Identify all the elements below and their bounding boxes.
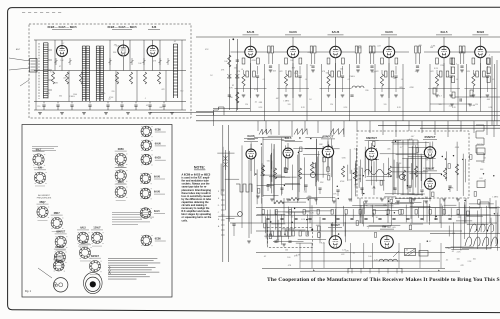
svg-text:.01: .01 bbox=[262, 79, 265, 81]
antenna coil L1 bbox=[43, 43, 48, 99]
tube socket bottom view X7 6AL5 bbox=[77, 227, 90, 247]
sync section resistor R34 bbox=[341, 166, 344, 177]
tuner resistor R6 bbox=[143, 72, 146, 84]
sync section capacitor C37 bbox=[408, 185, 411, 187]
wire tuner bottom bus bbox=[34, 109, 186, 111]
wire V13 plate up bbox=[371, 143, 373, 148]
svg-text:560: 560 bbox=[473, 74, 476, 76]
CRT socket pin dots bbox=[109, 267, 111, 269]
wire V9 stage drop to AGC bus bbox=[465, 64, 467, 112]
wire V8 cathode down bbox=[443, 58, 445, 98]
V6 decoupling resistor boxes bbox=[331, 71, 334, 77]
svg-text:6CB6: 6CB6 bbox=[477, 30, 485, 34]
V8 cathode resistor bbox=[435, 74, 438, 86]
V5 plate load box bbox=[299, 58, 302, 64]
V4 screen bypass capacitor bbox=[256, 75, 259, 77]
wire vertical drop 8 bbox=[439, 198, 441, 223]
video detector load resistors bbox=[452, 58, 455, 65]
mesh micro value labels bbox=[267, 136, 499, 245]
tuner resistor R7 bbox=[157, 72, 160, 84]
svg-text:6AU6: 6AU6 bbox=[247, 134, 255, 138]
yoke winding curls second row bbox=[470, 224, 494, 232]
svg-text:100: 100 bbox=[473, 259, 476, 261]
tube socket bottom view X3 6BQ7 bbox=[37, 202, 50, 221]
tuner trimmer capacitor CT6 bbox=[159, 60, 162, 63]
wire V9 plate tie left bbox=[460, 51, 474, 53]
wire V4 plate tie right bbox=[257, 51, 271, 53]
svg-text:6AU6: 6AU6 bbox=[332, 30, 340, 34]
wire V8 plate to B+ bus bbox=[443, 37, 445, 46]
wire V4 plate tie left bbox=[231, 51, 245, 53]
sync section ground 11 bbox=[364, 200, 368, 202]
wire V7 stage drop to heater bus bbox=[402, 64, 404, 121]
svg-text:.02: .02 bbox=[352, 253, 355, 255]
V7 cathode resistor bbox=[380, 74, 383, 86]
wire vertical riser 12 bbox=[395, 121, 397, 137]
wire vertical drop 10 bbox=[489, 198, 491, 223]
wire V4 cathode down bbox=[250, 58, 252, 98]
wire V15 cathode down bbox=[429, 189, 431, 201]
wire video out right edge bbox=[491, 56, 493, 125]
svg-text:6J6: 6J6 bbox=[152, 25, 157, 29]
antenna coil shield dashed bbox=[38, 43, 40, 99]
converter grid resistor bbox=[228, 55, 231, 67]
svg-text:.1: .1 bbox=[145, 98, 147, 100]
tube socket bottom view X13 6BC5 bbox=[115, 182, 128, 201]
wire vertical riser 15 bbox=[434, 121, 436, 135]
sync section ground 7 bbox=[286, 198, 290, 200]
volume control pot bbox=[238, 212, 243, 217]
bottom row micro labels bbox=[264, 247, 476, 267]
V9 ground symbol bbox=[472, 94, 476, 96]
sound takeoff coil bbox=[352, 86, 364, 88]
wire V6 cathode down bbox=[335, 58, 337, 98]
V7 ground symbol 2 bbox=[394, 94, 398, 96]
wire V6 center drop to bus bbox=[335, 63, 337, 112]
antenna terminal strip bbox=[30, 59, 38, 73]
svg-text:6AL5: 6AL5 bbox=[154, 210, 160, 213]
harness top ties bbox=[393, 139, 418, 141]
svg-text:+: + bbox=[438, 269, 440, 273]
sync section resistor R33 bbox=[310, 162, 313, 173]
tuner trimmer capacitor CT3 bbox=[109, 60, 112, 63]
tuner bypass capacitor C4 bbox=[88, 104, 91, 106]
V8 ground symbol 2 bbox=[449, 94, 453, 96]
svg-text:120: 120 bbox=[439, 104, 442, 106]
wire V5 cathode down bbox=[292, 58, 294, 98]
svg-text:6AL5: 6AL5 bbox=[440, 30, 447, 34]
sawtooth waveform sketch 2 bbox=[294, 129, 307, 135]
mixer grid coil L6 bbox=[100, 46, 103, 101]
svg-text:120: 120 bbox=[288, 104, 291, 106]
svg-text:6AL5: 6AL5 bbox=[285, 136, 292, 140]
svg-text:FREQUENCIES: FREQUENCIES bbox=[37, 198, 52, 200]
wire vertical riser 16 bbox=[447, 121, 449, 137]
V6 grid resistor in box bbox=[327, 58, 330, 64]
V8 screen bypass capacitor bbox=[449, 75, 452, 77]
sync section resistor R32 bbox=[298, 168, 301, 179]
tube socket bottom view XR4 6AU6 bbox=[140, 173, 165, 184]
svg-text:470K: 470K bbox=[252, 60, 257, 62]
svg-text:WIDTH: WIDTH bbox=[477, 144, 484, 146]
V5 ground tie wire bbox=[277, 88, 309, 90]
tuner resistor R5 bbox=[129, 72, 132, 84]
svg-text:12AU7: 12AU7 bbox=[426, 166, 435, 170]
svg-text:.01: .01 bbox=[290, 216, 293, 218]
svg-text:Fig. 1: Fig. 1 bbox=[25, 290, 32, 293]
tuner resistor R1 bbox=[51, 72, 54, 84]
wire V15 plate up bbox=[429, 173, 431, 178]
V9 decoupling resistor boxes bbox=[476, 71, 479, 77]
AGC keyer dashed enclosure bbox=[268, 228, 313, 248]
sync section resistor R36 bbox=[388, 166, 391, 177]
tuner ground 5 bbox=[126, 112, 130, 114]
long wire bus y223 bbox=[230, 222, 497, 224]
cathode resistor stack bbox=[318, 226, 321, 231]
wire vertical riser 9 bbox=[356, 121, 358, 131]
wire V5 plate to B+ bus bbox=[292, 37, 294, 46]
sync section resistor R31 bbox=[273, 168, 276, 179]
svg-text:.01: .01 bbox=[305, 79, 308, 81]
wire V10 plate up bbox=[250, 144, 252, 149]
svg-text:.01: .01 bbox=[174, 41, 177, 43]
svg-text:6SN7GT: 6SN7GT bbox=[56, 232, 66, 234]
wire vertical drop 2 bbox=[283, 198, 285, 223]
V7 grid resistor in box bbox=[381, 58, 384, 64]
svg-text:6AL5: 6AL5 bbox=[80, 227, 86, 230]
wire V5 stage drop to AGC bus bbox=[278, 64, 280, 112]
V4 plate load box bbox=[257, 58, 260, 64]
twisted pair symbol bbox=[225, 150, 227, 170]
wire bottom bus 4 bbox=[300, 270, 460, 272]
right edge meander shield bbox=[476, 125, 484, 161]
detector filter components bbox=[433, 88, 436, 94]
wire tuner mid bus bbox=[34, 70, 186, 72]
sync section ground 17 bbox=[456, 198, 460, 200]
svg-text:220: 220 bbox=[112, 91, 115, 93]
tube location panel box bbox=[22, 125, 172, 298]
V8 ground tie wire bbox=[428, 88, 460, 90]
svg-text:100: 100 bbox=[457, 258, 460, 260]
tuner bypass capacitor C9 bbox=[162, 104, 165, 106]
AGC keyer components inside dashed box bbox=[271, 231, 273, 236]
svg-text:.005: .005 bbox=[399, 87, 403, 89]
V6 ground symbol bbox=[327, 94, 331, 96]
wire vertical riser 4 bbox=[291, 121, 293, 137]
wire converter feed line B bbox=[236, 39, 238, 110]
wire to yoke bbox=[430, 233, 500, 235]
wire bottom bus 1 bbox=[256, 251, 445, 253]
tube socket bottom view X2 6J6 bbox=[34, 168, 47, 187]
horizontal resistor R44 bbox=[274, 200, 284, 203]
tuner ground 4 bbox=[104, 112, 108, 114]
tuner bypass capacitor C3 bbox=[70, 104, 73, 106]
wire V13 cathode down bbox=[371, 160, 373, 172]
wire vertical riser 8 bbox=[343, 121, 345, 137]
svg-text:560: 560 bbox=[430, 47, 433, 49]
wire V12 cathode down bbox=[327, 158, 329, 170]
svg-text:.047: .047 bbox=[411, 136, 415, 138]
sine waveform sketch large bbox=[365, 169, 389, 175]
wire V11 cathode down bbox=[287, 158, 289, 170]
sync section capacitor C33 bbox=[318, 187, 321, 189]
sync section capacitor C34 bbox=[336, 189, 339, 191]
wire V6 stage drop to AGC bus bbox=[321, 64, 323, 112]
svg-text:100: 100 bbox=[234, 67, 237, 69]
tuner trimmer capacitor CT1 bbox=[55, 60, 58, 63]
wire bottom bus 2 bbox=[300, 260, 440, 262]
IF transformer T4 bbox=[369, 46, 375, 72]
IF transformer T6 bbox=[459, 46, 465, 72]
svg-text:.01: .01 bbox=[456, 79, 459, 81]
long wire bus y231 bbox=[256, 230, 462, 232]
svg-text:220: 220 bbox=[294, 73, 297, 75]
sync section ground 15 bbox=[424, 200, 428, 202]
wire V8 stage drop to heater bus bbox=[457, 64, 459, 121]
wire V14 cathode down bbox=[429, 158, 431, 170]
V5 screen bypass capacitor bbox=[298, 75, 301, 77]
svg-text:.047: .047 bbox=[47, 70, 51, 72]
tube socket bottom view X6 6SN7GT bbox=[54, 247, 67, 266]
sound discriminator transformer bbox=[236, 184, 252, 192]
wire V10 cathode down bbox=[250, 159, 252, 171]
B+ heavy bus right bbox=[378, 125, 500, 127]
wire V9 plate tie right bbox=[486, 51, 500, 53]
tuner trimmer capacitor CT4 bbox=[131, 60, 134, 63]
wire vertical riser 6 bbox=[317, 121, 319, 133]
mesh small component boxes bbox=[258, 141, 481, 238]
wire vertical drop 5 bbox=[359, 198, 361, 223]
interconnect mesh wires bbox=[217, 136, 498, 251]
vertical hold pot R46 bbox=[310, 172, 315, 177]
svg-text:.01: .01 bbox=[492, 79, 495, 81]
svg-text:330: 330 bbox=[59, 96, 62, 98]
V8 grid resistor in box bbox=[436, 58, 439, 64]
tuner ground 6 bbox=[148, 112, 152, 114]
wire V7 stage drop to AGC bus bbox=[374, 64, 376, 112]
output transformer primary coil bbox=[379, 259, 397, 261]
electrolytic bracket bbox=[348, 268, 402, 273]
wire vertical drop 1 bbox=[261, 198, 263, 223]
V9 plate load box bbox=[486, 58, 489, 64]
tube socket bottom view XR7 6CB6 bbox=[141, 235, 166, 246]
heater bus wire lower bbox=[196, 120, 500, 122]
svg-text:6CB6: 6CB6 bbox=[155, 238, 162, 240]
tuner drum detail coils bbox=[54, 282, 56, 284]
svg-text:12AU7: 12AU7 bbox=[93, 227, 101, 230]
wire tuner tube stubs bbox=[61, 40, 63, 45]
mixer tube V2 6AG5 bbox=[118, 45, 129, 56]
wire vertical riser 7 bbox=[330, 121, 332, 135]
wire vertical drop 9 bbox=[465, 198, 467, 223]
svg-text:4.7: 4.7 bbox=[62, 43, 65, 45]
junction dot bbox=[311, 229, 313, 231]
sync section capacitor C36 bbox=[393, 187, 396, 189]
oscillator tube V3 6J6 bbox=[147, 46, 158, 57]
interconnect cable wire B bbox=[227, 125, 229, 262]
svg-text:.02: .02 bbox=[310, 65, 313, 67]
svg-text:220: 220 bbox=[440, 65, 443, 67]
wire vertical riser 5 bbox=[304, 121, 306, 131]
V6 plate load box bbox=[342, 58, 345, 64]
panel numbered list mid bbox=[112, 211, 152, 214]
sync section dashed enclosure bbox=[357, 131, 469, 198]
svg-text:NOTE:: NOTE: bbox=[194, 166, 205, 170]
tube socket bottom view X5 6SN7GT bbox=[55, 232, 68, 251]
tuner ground 3 bbox=[82, 112, 86, 114]
svg-text:6BQ7: 6BQ7 bbox=[39, 202, 46, 204]
svg-text:1 MEG: 1 MEG bbox=[100, 93, 106, 95]
sawtooth waveform sketch 3 bbox=[330, 129, 344, 135]
svg-text:The Cooperation of the Manufac: The Cooperation of the Manufacturer of T… bbox=[267, 277, 500, 283]
sync section ground 5 bbox=[256, 195, 260, 197]
svg-text:.005: .005 bbox=[302, 231, 306, 233]
svg-text:.02: .02 bbox=[487, 73, 490, 75]
junction dot converter bbox=[232, 38, 234, 40]
RF interstage coil L3 bbox=[82, 46, 85, 101]
svg-text:470K: 470K bbox=[455, 147, 460, 149]
wire V4 plate to B+ bus bbox=[250, 37, 252, 46]
wire vertical drop 7 bbox=[411, 198, 413, 223]
V8 plate load box bbox=[450, 58, 453, 64]
converter diode B bbox=[235, 74, 239, 78]
oscillator coil L7 with taps bbox=[173, 44, 177, 98]
tuner ground 7 bbox=[170, 112, 174, 114]
svg-text:220: 220 bbox=[37, 106, 40, 108]
wire V5 center drop to bus bbox=[292, 63, 294, 112]
svg-text:560: 560 bbox=[180, 90, 183, 92]
V8 ground symbol bbox=[435, 94, 439, 96]
wire vertical drop 4 bbox=[335, 198, 337, 223]
IF transformer T1 bbox=[268, 46, 274, 72]
tube socket bottom view X21 6AX4 bbox=[53, 256, 65, 272]
svg-text:.01: .01 bbox=[117, 81, 120, 83]
audio coupling cap bbox=[232, 223, 235, 225]
svg-text:6CB6 — 6AG5 — 6BC5: 6CB6 — 6AG5 — 6BC5 bbox=[47, 25, 77, 29]
svg-text:6AU6: 6AU6 bbox=[154, 191, 161, 194]
svg-text:.02: .02 bbox=[405, 250, 408, 252]
CRT socket large circle bbox=[86, 277, 100, 291]
AGC bus wire bbox=[196, 111, 500, 113]
svg-text:560: 560 bbox=[326, 73, 329, 75]
wire vertical riser 14 bbox=[421, 121, 423, 133]
wire V9 center drop to bus bbox=[479, 63, 481, 112]
V9 ground symbol 2 bbox=[486, 94, 490, 96]
mesh junction dots bbox=[255, 137, 495, 242]
top margin tick marks bbox=[22, 12, 25, 14]
wire vertical riser 18 bbox=[473, 121, 475, 133]
svg-text:6CB6: 6CB6 bbox=[118, 149, 125, 151]
svg-text:100: 100 bbox=[287, 257, 290, 259]
sync section ground 12 bbox=[380, 198, 384, 200]
wire V5 plate tie right bbox=[299, 51, 313, 53]
svg-text:.02: .02 bbox=[264, 256, 267, 258]
V6 cathode resistor bbox=[327, 74, 330, 86]
tuner bypass capacitor C5 bbox=[106, 104, 109, 106]
audio ground bbox=[247, 240, 251, 242]
svg-text:6AX4GT: 6AX4GT bbox=[54, 256, 64, 259]
wire V5 stage drop to heater bus bbox=[306, 64, 308, 121]
sync section resistor R39 bbox=[443, 168, 446, 179]
svg-text:1 MEG: 1 MEG bbox=[69, 96, 75, 98]
wire V14 plate up bbox=[429, 142, 431, 147]
svg-text:220: 220 bbox=[458, 217, 461, 219]
svg-text:.02: .02 bbox=[483, 158, 486, 160]
tuner ground 2 bbox=[60, 112, 64, 114]
V8 decoupling resistor boxes bbox=[439, 71, 442, 77]
tube socket bottom view X11 6CB6 bbox=[115, 149, 128, 168]
wire V8 plate tie left bbox=[424, 51, 438, 53]
svg-text:.1: .1 bbox=[367, 228, 369, 230]
svg-text:1 MEG: 1 MEG bbox=[349, 76, 355, 78]
video amp peaking coils bbox=[487, 58, 490, 65]
svg-text:6AU6: 6AU6 bbox=[247, 30, 255, 34]
tuner resistor R2 bbox=[65, 72, 68, 84]
svg-text:120: 120 bbox=[245, 104, 248, 106]
svg-text:.01: .01 bbox=[361, 168, 364, 170]
wire vertical riser 2 bbox=[265, 121, 267, 133]
V7 ground symbol bbox=[380, 94, 384, 96]
wire V9 cathode down bbox=[479, 58, 481, 98]
V9 ground tie wire bbox=[464, 88, 496, 90]
svg-text:.047: .047 bbox=[348, 180, 352, 182]
svg-text:.01: .01 bbox=[401, 79, 404, 81]
svg-text:120: 120 bbox=[330, 104, 333, 106]
sync section ground 13 bbox=[396, 200, 400, 202]
svg-text:6W4GT: 6W4GT bbox=[91, 255, 100, 258]
svg-text:.01: .01 bbox=[307, 52, 310, 54]
height pot R47 bbox=[399, 174, 404, 179]
sound takeoff cap bbox=[350, 94, 353, 96]
svg-text:.5: .5 bbox=[95, 59, 97, 61]
svg-text:.047: .047 bbox=[377, 45, 381, 47]
svg-text:.1: .1 bbox=[464, 171, 466, 173]
svg-text:470K: 470K bbox=[357, 175, 362, 177]
sync section capacitor C30 bbox=[266, 184, 269, 186]
svg-text:.005: .005 bbox=[387, 149, 391, 151]
converter cap bbox=[236, 59, 239, 61]
sync section capacitor C38 bbox=[420, 189, 423, 191]
wire vertical riser 17 bbox=[460, 121, 462, 131]
svg-text:100: 100 bbox=[290, 60, 293, 62]
svg-text:+: + bbox=[313, 269, 315, 273]
tuner extra vertical wires bbox=[54, 40, 56, 71]
wire tuner top bus bbox=[34, 39, 186, 41]
svg-text:6SN7GT: 6SN7GT bbox=[323, 134, 334, 138]
tuner drum large circle bbox=[54, 278, 68, 292]
tube socket bottom view X4 6BK7 bbox=[51, 213, 64, 232]
linearity coil box bbox=[477, 181, 485, 188]
svg-text:6BC5: 6BC5 bbox=[118, 182, 125, 184]
svg-text:6SN7GT: 6SN7GT bbox=[366, 136, 377, 140]
svg-text:.005: .005 bbox=[63, 77, 67, 79]
long wire bus y215 bbox=[256, 214, 500, 216]
speaker leader arrow bbox=[393, 251, 399, 257]
svg-text:47: 47 bbox=[59, 66, 61, 68]
mixer grid coil L5 bbox=[96, 46, 99, 101]
sync section ground 8 bbox=[314, 198, 318, 200]
wire vertical riser 19 bbox=[486, 121, 488, 135]
tuner resistor R4 bbox=[115, 72, 118, 84]
RF interstage coil L4 bbox=[86, 46, 89, 101]
wire vertical drop 3 bbox=[309, 198, 311, 223]
wire V8 center drop to bus bbox=[443, 63, 445, 112]
deflection yoke winding curls bbox=[465, 237, 497, 246]
svg-text:4.7: 4.7 bbox=[400, 147, 403, 149]
wire vertical riser 10 bbox=[369, 121, 371, 133]
svg-text:6AG5: 6AG5 bbox=[118, 164, 125, 167]
sawtooth waveform sketch 1 bbox=[259, 129, 271, 135]
